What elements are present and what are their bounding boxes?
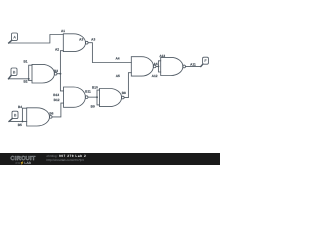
wire A3 from U1 to U6 pin A4 xyxy=(88,43,131,63)
wire A6 junction down to U7 pin A12 xyxy=(158,66,160,72)
svg-text:B8: B8 xyxy=(122,91,126,95)
output port F xyxy=(201,57,209,66)
wire B3 junction up to U1 pin A2 xyxy=(60,51,63,74)
svg-text:A4: A4 xyxy=(115,56,119,60)
svg-text:http://circuitlab.com/c557fp9: http://circuitlab.com/c557fp9 xyxy=(47,158,85,162)
svg-text:B5: B5 xyxy=(18,123,22,127)
svg-text:B10: B10 xyxy=(92,86,98,90)
svg-text:B4: B4 xyxy=(18,105,22,109)
wire B8 from U5 to U6 pin A5 xyxy=(125,73,132,98)
svg-text:A5: A5 xyxy=(116,74,120,78)
wire B3 from U2 bubble to junction xyxy=(57,73,60,75)
junction B11 node xyxy=(96,96,98,98)
svg-text:A2: A2 xyxy=(55,47,59,51)
svg-text:A1: A1 xyxy=(61,29,65,33)
svg-text:A11: A11 xyxy=(190,62,196,66)
footer credit text xyxy=(47,154,87,162)
svg-text:A13: A13 xyxy=(159,54,165,58)
svg-text:B1: B1 xyxy=(23,59,27,63)
wire A to gate U1 pin A1 xyxy=(9,35,64,44)
svg-text:B11: B11 xyxy=(85,89,91,93)
wire B6 from U3 to U4 pin B12 xyxy=(52,103,63,117)
svg-text:B6: B6 xyxy=(49,112,53,116)
svg-text:B: B xyxy=(14,114,17,118)
svg-text:∼∼⚡LAB: ∼∼⚡LAB xyxy=(15,161,32,165)
footer watermark bar xyxy=(0,153,220,165)
wire B11 from U4 bubble to junction xyxy=(88,96,97,98)
svg-text:B: B xyxy=(13,70,16,74)
svg-text:A3: A3 xyxy=(91,38,95,42)
nand gate U4 (inputs B13,B12 output B11) xyxy=(64,87,88,107)
junction port B wire xyxy=(28,78,30,80)
input port B lower xyxy=(9,111,18,121)
junction lower port wire xyxy=(21,120,23,122)
wire A6 from U6 bubble to junction xyxy=(156,65,158,67)
svg-text:B13: B13 xyxy=(53,93,59,97)
svg-text:A3: A3 xyxy=(79,38,83,42)
svg-text:B9: B9 xyxy=(91,104,95,108)
input port A xyxy=(9,33,18,43)
svg-text:B12: B12 xyxy=(54,98,60,102)
nand gate U6 (inputs A4,A5 output A6) xyxy=(131,57,156,76)
svg-text:B3: B3 xyxy=(54,69,58,73)
wire B3 junction down to U4 pin B13 xyxy=(60,74,63,91)
nand gate U2 (inputs B1,B2 output B3) xyxy=(32,64,57,83)
nand gate U1 (inputs A1,A2 output A3) xyxy=(63,34,88,52)
wire A6 junction up to U7 pin A13 xyxy=(158,61,160,67)
svg-text:A: A xyxy=(13,35,16,39)
wire B to U2 pin B2 xyxy=(9,78,29,80)
nand gate U7 (inputs A13,A12 output A11) xyxy=(161,57,186,75)
wire A11 from U7 to port F xyxy=(186,65,201,67)
svg-text:A12: A12 xyxy=(152,74,158,78)
wire port to U3 pin B5 xyxy=(9,120,27,122)
wire B11 junction down to U5 pin B9 xyxy=(97,97,100,105)
input port B xyxy=(9,68,18,79)
svg-text:B2: B2 xyxy=(23,80,27,84)
wire branch to U3 pin B4 xyxy=(22,108,26,121)
wire B11 junction up to U5 pin B10 xyxy=(97,90,100,97)
junction A6 node xyxy=(157,65,159,67)
nand gate U3 (inputs B4,B5 output B6) xyxy=(27,108,52,126)
svg-text:A6: A6 xyxy=(154,62,158,66)
wire branch B to U2 pin B1 xyxy=(29,79,32,81)
CircuitLab logo xyxy=(11,155,36,165)
nand gate U5 (inputs B10,B9 output B8) xyxy=(100,89,125,107)
junction B3 node xyxy=(59,73,61,75)
